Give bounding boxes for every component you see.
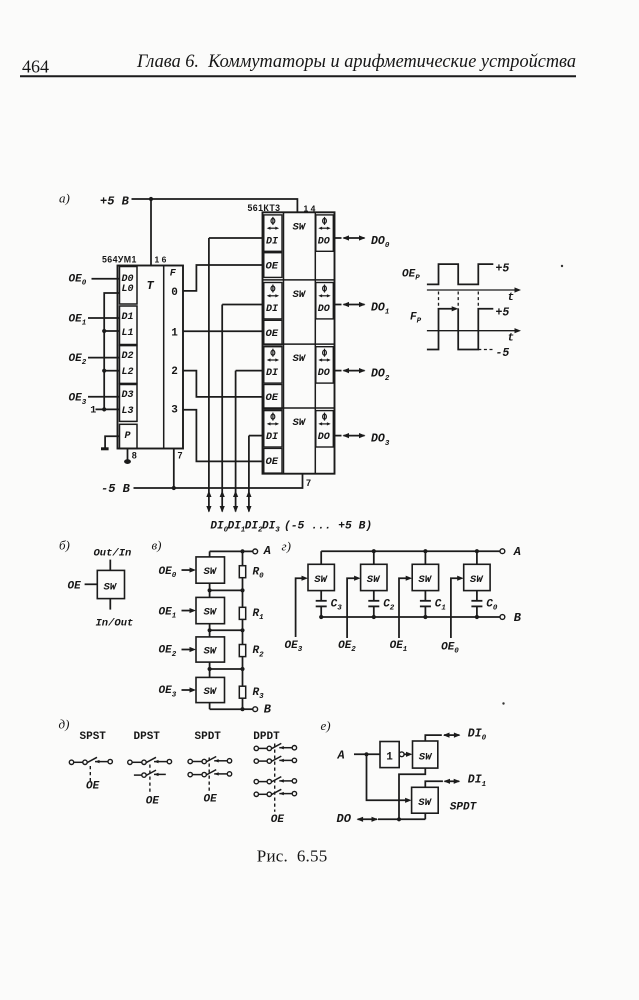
junction top bus 3 (г) [475,549,479,553]
svg-text:T: T [147,279,155,293]
U2 ch0 DI cell [264,215,282,251]
U1 input cell D3/L3 [120,385,138,422]
svg-text:7: 7 [306,478,311,488]
svg-text:Глава 6. Коммутаторы и арифме: Глава 6. Коммутаторы и арифметические ус… [136,51,576,72]
svg-text:OE3: OE3 [69,393,87,407]
U2 ch2 DO cell [316,347,334,383]
svg-text:L3: L3 [122,406,134,417]
U2 ch3 DI cell [264,411,282,447]
svg-text:t: t [508,292,515,304]
dashed control DPST [149,765,151,795]
wire OE2 control (г) [347,576,361,638]
wire DI1 line [220,305,263,513]
svg-text:DI2: DI2 [245,521,263,535]
junction DO line [397,817,401,821]
wire P input to ground [105,436,119,448]
node A (в) [253,549,258,554]
svg-text:OE: OE [271,814,285,826]
junction bottom bus 1 (г) [372,615,376,619]
svg-text:In/Out: In/Out [96,618,134,630]
wire SW1 bottom to DO line [399,768,425,819]
svg-text:P: P [125,431,131,442]
node B (в) [253,707,258,712]
switch DPDT row 3 [254,777,296,784]
svg-text:SW: SW [419,751,433,763]
node junction +5V / pin16 [149,197,153,201]
switch SW3 (в) [196,677,225,702]
wire SW3 bottom lead (в) [209,703,211,710]
wire A input [354,753,380,755]
wire F3 to OE section4 [183,410,263,462]
svg-text:R1: R1 [253,608,264,622]
arrow OE1 into SW (в) [182,608,197,613]
junction tap1 left (в) [208,628,212,632]
wire L0 to bus [104,293,119,409]
svg-text:SW: SW [204,607,218,619]
svg-text:FP: FP [410,312,422,326]
junction tap1 chain (в) [240,628,244,632]
svg-text:+5: +5 [496,263,510,276]
svg-text:DO: DO [318,236,330,247]
svg-text:SW: SW [418,574,432,586]
wire top to node A (в) [210,550,253,552]
ink speck [561,265,563,267]
arrow OE0 into SW (в) [182,567,197,572]
junction bottom bus 3 (г) [475,615,479,619]
svg-text:е): е) [321,718,331,733]
node A (г) [500,549,505,554]
svg-text:SW: SW [293,417,307,429]
svg-text:OE1: OE1 [159,606,177,620]
double arrow DI1 [445,780,460,782]
svg-text:SW: SW [204,686,218,698]
svg-text:t: t [508,333,515,345]
svg-text:C0: C0 [486,599,498,613]
svg-text:DI1: DI1 [228,521,246,535]
svg-text:г): г) [282,539,291,554]
svg-text:DI0: DI0 [210,521,228,535]
arrow OE2 into SW (в) [182,647,197,652]
svg-text:DO: DO [337,812,352,826]
U2 ch2 OE cell [264,385,282,410]
svg-text:DO: DO [318,304,330,315]
U2 divider right column [314,212,316,473]
wire DO0 output [335,237,342,239]
svg-text:0: 0 [171,287,178,299]
capacitor C0 [471,591,482,617]
dashed guide 1 [438,292,440,310]
U2 ch1 OE cell [264,320,282,345]
svg-text:OE0: OE0 [159,566,177,580]
svg-text:SW: SW [204,646,218,658]
U1 cell P [120,424,138,448]
svg-text:SW: SW [293,353,307,365]
svg-text:DPDT: DPDT [253,731,280,743]
svg-text:DPST: DPST [134,731,161,743]
svg-text:C1: C1 [435,599,446,613]
wire DO line [378,813,425,819]
svg-text:OE2: OE2 [69,353,87,367]
node B (г) [500,615,505,620]
svg-text:SPDT: SPDT [450,802,478,814]
resistor R1 [239,607,245,619]
svg-text:OE2: OE2 [159,645,177,659]
junction tap0 chain (в) [240,588,244,592]
junction top bus 1 (г) [372,549,376,553]
op IC U1 564УМ1 outline [118,266,184,449]
wire bottom to node B (в) [243,708,253,710]
switch DPDT row 4 [254,789,296,796]
U2 ch0 OE cell [264,253,282,278]
svg-text:а): а) [59,191,70,206]
svg-text:DO: DO [318,432,330,443]
svg-text:A: A [263,544,271,558]
wire tap to chain 0 (в) [210,589,243,591]
wire top lead (б) [109,560,111,571]
svg-text:SW: SW [204,566,218,578]
wire SW2 bottom lead (в) [209,662,211,669]
svg-text:B: B [514,611,522,625]
svg-text:SPDT: SPDT [195,731,222,743]
svg-text:F: F [170,269,177,280]
waveform OEp [427,264,493,284]
svg-text:OE3: OE3 [159,685,177,699]
svg-text:1: 1 [171,328,178,340]
svg-text:-5 В: -5 В [101,482,131,496]
wire OE lead (б) [85,583,98,585]
resistor chain wire (в) [242,551,244,709]
svg-text:б): б) [59,538,70,553]
capacitor C3 [316,591,327,617]
wire DO2 output [335,370,342,372]
svg-text:SW: SW [104,582,118,594]
U1 input cell D2/L2 [120,346,138,384]
svg-text:DO: DO [318,368,330,379]
wire OE1 control (г) [399,576,412,638]
svg-text:д): д) [59,717,70,732]
svg-text:Out/In: Out/In [94,548,132,560]
svg-text:A: A [337,749,345,763]
svg-text:OEP: OEP [402,269,420,283]
wire F0 to OE section1 [183,265,263,291]
wire SW2 top lead (г) [424,551,426,564]
U2 ch1 DI cell [264,283,282,319]
svg-text:SPST: SPST [80,731,107,743]
U2 ch2 DI cell [264,347,282,383]
ink speck 2 [502,702,504,704]
wire DI2 line [233,371,263,513]
svg-text:DI1: DI1 [468,774,486,789]
double arrow DI0 [444,734,459,736]
U2 divider left column [283,212,285,473]
label DI0 DI1 DI2 DI3 [210,521,280,535]
junction top bus 2 (г) [423,549,427,553]
ground blob pin 8 [124,459,131,464]
arrow OE3 into SW (в) [182,687,197,692]
svg-text:Рис. 6.55: Рис. 6.55 [257,847,328,866]
resistor R3 [239,686,245,698]
junction A branch [364,752,368,756]
svg-text:OE3: OE3 [285,640,303,654]
dashed control SPST [89,766,91,781]
U2 ch3 OE cell [264,448,282,473]
U2 section divider 3 [263,407,335,409]
wire OE0 to D0 [92,278,120,280]
double arrow DO2 [344,370,365,372]
switch SW (г) #3 [464,564,490,590]
wire SW1 to DI0 [425,735,442,741]
U1 input cell D1/L1 [120,306,138,345]
wire bottom bus to node B (г) [321,616,500,618]
switch DPST pole 2 [134,770,166,777]
svg-text:D2: D2 [122,351,134,362]
svg-text:-5: -5 [496,347,510,360]
capacitor C2 [368,591,379,617]
U2 ch0 DO cell [316,215,334,251]
svg-text:1 6: 1 6 [155,255,167,265]
svg-text:R3: R3 [253,687,265,701]
double arrow DO1 [344,304,365,306]
wire OE3 control (г) [296,576,308,637]
wire DO3 output [335,435,342,437]
svg-text:в): в) [152,538,162,553]
wire SW3 top lead (г) [476,551,478,564]
svg-text:DO1: DO1 [371,302,389,317]
svg-text:464: 464 [22,56,49,76]
svg-text:SW: SW [470,574,484,586]
wire tap to chain 3 (в) [210,708,243,710]
IC U2 561КТ3 outline [263,212,335,473]
wire -5V rail [134,474,303,488]
wire pin 16 of U1 [150,199,152,266]
wire F2 to OE section3 [183,371,263,397]
svg-text:8: 8 [132,451,137,461]
svg-text:OE: OE [146,796,160,808]
wire SW0 top lead (г) [320,551,322,564]
svg-text:L2: L2 [122,367,134,378]
svg-text:SW: SW [314,574,328,586]
switch DPDT row 2 [254,756,296,763]
svg-text:DO2: DO2 [371,368,390,383]
svg-text:OE1: OE1 [69,314,87,328]
svg-text:DI: DI [266,236,278,247]
switch SW1 (в) [196,597,225,623]
svg-text:SW: SW [418,797,432,809]
svg-text:OE: OE [204,793,218,805]
waveform Fp [427,306,493,349]
wire OE3 to D3 [88,396,120,398]
junction bottom bus 2 (г) [423,615,427,619]
wire L1 tap [104,330,119,332]
wire OE0 control (г) [451,576,464,638]
svg-text:SW: SW [367,574,381,586]
svg-text:SW: SW [293,289,307,301]
svg-text:DI0: DI0 [468,728,487,743]
switch SPDT throw 2 [188,770,232,777]
ground bar (P input) [101,447,109,450]
junction L1 [102,329,106,333]
time axis 1 [427,287,521,292]
svg-text:+5: +5 [496,307,510,320]
U2 section divider 1 [263,279,335,281]
junction tap2 chain (в) [240,667,244,671]
junction bottom chain (в) [240,707,244,711]
svg-text:C2: C2 [383,599,395,613]
svg-text:OE1: OE1 [390,640,408,654]
svg-text:SW: SW [293,221,307,233]
wire SW3 top lead (в) [209,669,211,677]
wire SW0 top lead (в) [209,551,211,557]
svg-text:L0: L0 [122,284,134,295]
wire SW2 top lead (в) [209,630,211,637]
U1 input cell D0/L0 [120,267,138,305]
wire SW2 to DI1 [425,781,443,787]
switch SW (б) [97,570,124,598]
switch SW2 (в) [196,637,225,662]
switch DPDT row 1 [254,743,296,750]
double arrow DO3 [344,435,365,437]
svg-text:DI: DI [266,304,278,315]
svg-text:2: 2 [171,366,178,378]
wire L2 tap [104,370,119,372]
junction top chain (в) [240,549,244,553]
junction L3 [102,407,106,411]
dashed control SPDT [208,758,210,792]
svg-text:DO3: DO3 [371,433,390,448]
resistor R2 [239,645,245,657]
svg-text:C3: C3 [331,599,343,613]
switch SW2 (е) [412,787,439,813]
svg-text:OE: OE [266,456,279,468]
wire pin 8 stub [127,449,129,461]
capacitor C1 [420,591,431,617]
svg-text:564УМ1: 564УМ1 [102,255,137,265]
wire inverter to SW1 (е) [404,752,412,757]
svg-text:OE: OE [68,581,82,593]
svg-text:OE0: OE0 [441,642,459,656]
svg-text:D3: D3 [122,390,134,401]
dashed level -5 [478,349,495,351]
wire SW1 bottom lead (в) [209,624,211,631]
switch SPST symbol [69,757,112,764]
time axis 2 [427,328,521,333]
switch SW (г) #0 [308,564,334,590]
wire OE2 to D2 [88,357,120,359]
wire logic1 to L3 [96,408,120,410]
svg-text:R0: R0 [253,566,265,580]
svg-text:OE: OE [266,260,279,272]
wire F1 to OE section2 [183,330,263,332]
wire top bus to node A (г) [321,550,500,552]
svg-text:OE0: OE0 [69,274,87,288]
svg-text:B: B [264,703,272,717]
switch DPST pole 1 [128,757,172,764]
wire pin 7 of U1 to -5V rail [173,449,175,489]
switch SW (г) #2 [412,564,438,590]
svg-text:3: 3 [171,405,178,417]
svg-text:A: A [513,545,521,559]
wire +5V rail to pin 14 [132,199,298,212]
U2 ch1 DO cell [316,283,334,319]
wire OE1 to D1 [88,317,120,319]
svg-text:DI: DI [266,432,278,443]
switch SPDT throw 1 [188,757,232,764]
switch SW0 (в) [196,557,225,583]
svg-text:OE: OE [86,781,100,793]
U1 internal divider T/F [163,266,165,449]
double arrow DO0 [344,237,365,239]
wire DO1 output [335,304,342,306]
switch SW1 (е) [413,741,438,768]
wire SW0 bottom lead (в) [209,583,211,590]
double arrow DO (е) [358,818,377,820]
U2 section divider 2 [263,343,335,345]
junction bottom bus 0 (г) [319,615,323,619]
header rule [20,75,576,77]
junction tap2 left (в) [208,667,212,671]
wire DI0 line [206,238,262,513]
junction -5V / pin7 U1 [172,486,176,490]
svg-text:+5 В: +5 В [100,195,130,209]
wire bottom lead (б) [109,599,111,610]
wire tap to chain 2 (в) [210,668,243,670]
svg-text:L1: L1 [122,328,134,339]
wire A to SW2 [367,754,412,803]
wire SW1 top lead (г) [373,551,375,564]
inverter gate 1 [380,742,399,768]
svg-text:(-5 ... +5 В): (-5 ... +5 В) [284,521,372,533]
svg-text:D1: D1 [122,312,134,323]
svg-text:R2: R2 [253,645,265,659]
svg-text:DO0: DO0 [371,235,390,250]
wire DI3 line [246,436,262,513]
svg-text:OE2: OE2 [338,640,356,654]
junction L2 [102,369,106,373]
junction tap0 left (в) [208,588,212,592]
svg-text:DI: DI [266,368,278,379]
svg-text:OE: OE [266,328,279,340]
U2 ch3 DO cell [316,411,334,447]
switch SW (г) #1 [361,564,387,590]
resistor R0 [239,566,245,578]
dashed guide 2 [457,292,459,310]
svg-text:7: 7 [178,451,183,461]
svg-text:DI3: DI3 [262,521,280,535]
dashed guide 3 [477,292,479,310]
svg-text:1: 1 [90,406,96,417]
wire tap to chain 1 (в) [210,629,243,631]
inverter output bubble [399,752,404,757]
svg-text:OE: OE [266,392,279,404]
svg-text:1: 1 [386,751,393,763]
wire SW1 top lead (в) [209,590,211,597]
dashed control DPDT [274,744,276,812]
